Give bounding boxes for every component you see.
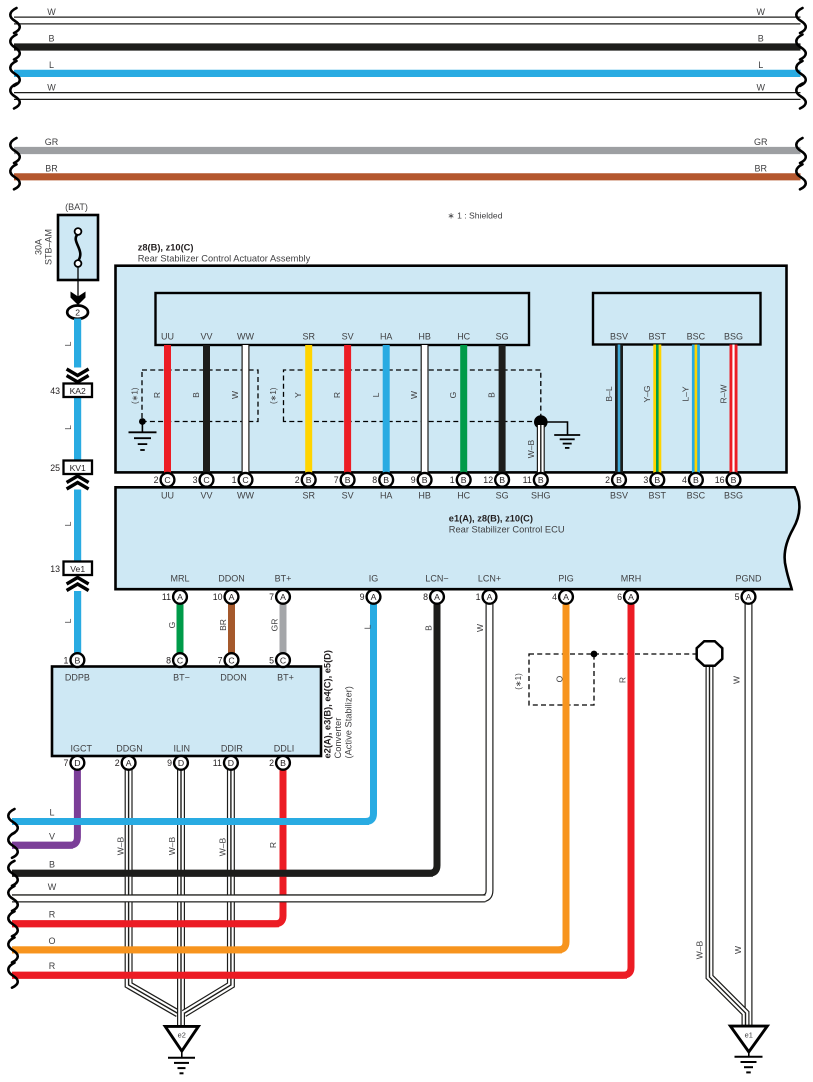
svg-text:B: B <box>345 475 351 485</box>
svg-text:DDON: DDON <box>220 673 247 683</box>
svg-text:z8(B), z10(C): z8(B), z10(C) <box>138 243 194 253</box>
svg-text:Converter: Converter <box>333 718 343 759</box>
svg-text:W: W <box>48 882 57 892</box>
svg-text:A: A <box>628 592 634 602</box>
svg-text:A: A <box>177 592 183 602</box>
fuse box 30A STB-AM <box>58 215 98 280</box>
svg-text:B: B <box>654 475 660 485</box>
svg-text:O: O <box>48 936 55 946</box>
svg-text:A: A <box>126 758 132 768</box>
wire DDLI red R to bus <box>12 769 283 923</box>
ECU pin 1(A) <box>476 590 497 604</box>
svg-text:30A: 30A <box>34 239 44 255</box>
svg-text:9: 9 <box>167 758 172 768</box>
pin 12(B) SG <box>483 473 509 487</box>
wire SR yellow Y <box>305 345 312 473</box>
svg-text:Ve1: Ve1 <box>70 564 85 574</box>
svg-text:7: 7 <box>63 758 68 768</box>
actuator inner block 1 <box>156 293 530 345</box>
svg-text:L: L <box>758 60 763 70</box>
wire UU red R <box>164 345 171 473</box>
wire DDGN white-black W-B <box>129 769 178 1013</box>
svg-text:C: C <box>242 475 248 485</box>
svg-text:11: 11 <box>213 758 222 768</box>
svg-text:2: 2 <box>295 475 300 485</box>
bus wire R red bottom 2 <box>12 972 627 979</box>
break squiggle bottom bus <box>8 886 17 911</box>
svg-text:B: B <box>616 475 622 485</box>
pin 16(B) BSG <box>715 473 741 487</box>
svg-text:9: 9 <box>360 592 365 602</box>
svg-text:BSG: BSG <box>724 332 743 342</box>
svg-text:A: A <box>746 592 752 602</box>
svg-text:B: B <box>461 475 467 485</box>
svg-text:2: 2 <box>269 758 274 768</box>
pin 8(B) HA <box>372 473 393 487</box>
converter top pin 8(C) BT- <box>166 653 187 667</box>
wire VV black B <box>203 345 210 473</box>
svg-text:10: 10 <box>213 592 223 602</box>
svg-text:SV: SV <box>342 332 354 342</box>
svg-text:4: 4 <box>682 475 687 485</box>
break squiggle bottom bus <box>8 963 17 988</box>
break squiggle top bus right <box>796 35 805 60</box>
svg-text:e1(A), z8(B), z10(C): e1(A), z8(B), z10(C) <box>449 514 533 524</box>
svg-text:W: W <box>230 391 240 399</box>
svg-text:UU: UU <box>161 332 174 342</box>
shield dashed box 1 around UU/VV/WW wires <box>142 370 258 422</box>
svg-text:BSV: BSV <box>610 490 628 500</box>
pin 2(B) SR <box>295 473 316 487</box>
svg-text:1: 1 <box>476 592 481 602</box>
svg-text:B–L: B–L <box>604 386 614 401</box>
svg-text:HB: HB <box>418 490 431 500</box>
svg-text:C: C <box>203 475 209 485</box>
svg-text:7: 7 <box>334 475 339 485</box>
wire LCN+ white W to bus <box>12 603 490 898</box>
svg-text:SHG: SHG <box>531 490 551 500</box>
shield drain wire W-B from octagon to ground e1 <box>710 665 746 1026</box>
pin 2(C) UU <box>154 473 175 487</box>
arrow into connector 2 <box>71 292 86 306</box>
converter bottom pin 11(D) DDIR <box>213 756 238 770</box>
svg-text:V: V <box>49 831 55 841</box>
wire L blue segment 4 <box>74 591 81 653</box>
svg-text:BT+: BT+ <box>277 673 294 683</box>
wire MRL to BT- green G <box>177 603 184 653</box>
svg-text:KV1: KV1 <box>70 463 86 473</box>
svg-text:DDON: DDON <box>218 574 245 584</box>
svg-text:IG: IG <box>369 574 379 584</box>
svg-text:C: C <box>280 655 286 665</box>
pin 9(B) HB <box>411 473 432 487</box>
svg-text:PIG: PIG <box>558 574 574 584</box>
ECU pin 6(A) <box>617 590 638 604</box>
svg-text:SR: SR <box>302 332 315 342</box>
svg-text:B: B <box>191 392 201 398</box>
svg-text:W–B: W–B <box>167 836 177 855</box>
ground triangle e1 <box>730 1026 767 1052</box>
wire HB white W <box>421 345 429 473</box>
svg-text:BR: BR <box>45 163 58 173</box>
ground triangle e2 <box>165 1026 198 1051</box>
break squiggle bottom bus <box>8 911 17 936</box>
svg-text:A: A <box>487 592 493 602</box>
svg-text:R: R <box>618 677 628 683</box>
svg-text:3: 3 <box>193 475 198 485</box>
svg-text:W: W <box>733 946 743 954</box>
svg-text:L: L <box>63 425 73 430</box>
break squiggle bottom bus <box>8 937 17 962</box>
ECU pin 9(A) <box>360 590 381 604</box>
wire BT+ gray GR <box>280 603 287 653</box>
pin 1(C) WW <box>232 473 253 487</box>
svg-text:2: 2 <box>75 307 80 317</box>
break squiggle bottom bus <box>8 861 17 886</box>
svg-text:HA: HA <box>380 332 393 342</box>
fuse STB-AM element <box>76 234 81 261</box>
svg-text:KA2: KA2 <box>70 386 86 396</box>
svg-text:DDPB: DDPB <box>65 673 90 683</box>
svg-text:B: B <box>499 475 505 485</box>
svg-text:4: 4 <box>552 592 557 602</box>
wire PIG orange O to bus <box>12 603 566 950</box>
svg-text:5: 5 <box>735 592 740 602</box>
svg-text:e2: e2 <box>178 1031 186 1040</box>
bus wire L blue bottom <box>12 818 369 825</box>
junction dot on dashed box 3 <box>591 651 598 658</box>
bus wire B black bottom <box>12 870 433 877</box>
svg-text:R–W: R–W <box>719 385 729 404</box>
svg-text:LCN+: LCN+ <box>478 574 501 584</box>
svg-text:SG: SG <box>496 490 509 500</box>
svg-text:DDLI: DDLI <box>274 744 295 754</box>
svg-text:MRH: MRH <box>621 574 642 584</box>
wire L blue segment 2 <box>74 396 81 461</box>
svg-text:B: B <box>424 625 434 631</box>
wire ILIN white-black W-B <box>177 769 185 1013</box>
svg-text:B: B <box>422 475 428 485</box>
svg-text:B: B <box>75 655 81 665</box>
svg-text:(Active Stabilizer): (Active Stabilizer) <box>344 686 354 758</box>
ECU pin 11(A) <box>162 590 187 604</box>
svg-text:BT+: BT+ <box>275 574 292 584</box>
converter box e2/e3/e4/e5 <box>52 667 321 757</box>
svg-text:Y: Y <box>293 392 303 398</box>
svg-text:8: 8 <box>372 475 377 485</box>
break squiggle top bus left <box>10 8 19 33</box>
break squiggle top bus right <box>796 8 805 33</box>
svg-text:HC: HC <box>457 490 470 500</box>
svg-text:WW: WW <box>237 332 254 342</box>
ECU pin 7(A) <box>269 590 290 604</box>
svg-text:B: B <box>280 758 286 768</box>
svg-text:DDGN: DDGN <box>116 744 143 754</box>
svg-text:ILIN: ILIN <box>173 744 190 754</box>
pin 4(B) BSC <box>682 473 703 487</box>
break squiggle top bus left <box>10 61 19 86</box>
wire HC green G <box>460 345 467 473</box>
svg-text:DDIR: DDIR <box>221 744 243 754</box>
svg-text:13: 13 <box>50 564 60 574</box>
chevron up below KV1 <box>67 476 89 489</box>
svg-text:WW: WW <box>237 490 254 500</box>
converter top pin 1(B) DDPB <box>63 653 84 667</box>
shield ground of box 1 <box>141 422 143 433</box>
svg-text:6: 6 <box>617 592 622 602</box>
svg-text:D: D <box>228 758 234 768</box>
svg-text:B: B <box>48 34 54 44</box>
svg-text:R: R <box>332 392 342 398</box>
svg-text:11: 11 <box>162 592 171 602</box>
svg-text:B: B <box>306 475 312 485</box>
svg-text:R: R <box>152 392 162 398</box>
svg-text:STB–AM: STB–AM <box>44 229 54 265</box>
svg-text:L: L <box>63 618 73 623</box>
junction dot SHG <box>534 415 548 429</box>
svg-text:W: W <box>732 676 742 684</box>
svg-text:PGND: PGND <box>735 574 762 584</box>
svg-text:1: 1 <box>232 475 237 485</box>
svg-text:43: 43 <box>50 386 60 396</box>
connector oval 2 <box>67 306 88 319</box>
bus wire W white bottom <box>12 894 486 902</box>
bus wire B black top <box>14 43 801 50</box>
junction box Ve1 <box>64 562 93 576</box>
svg-text:∗ 1 : Shielded: ∗ 1 : Shielded <box>448 211 503 221</box>
junction dot box1 <box>139 418 146 425</box>
svg-text:R: R <box>49 961 56 971</box>
svg-text:D: D <box>178 758 184 768</box>
pin 3(C) VV <box>193 473 214 487</box>
svg-text:UU: UU <box>161 490 174 500</box>
wire WW white W <box>242 345 250 473</box>
svg-text:W–B: W–B <box>116 836 126 855</box>
svg-text:BR: BR <box>218 619 228 631</box>
svg-text:L: L <box>49 808 54 818</box>
svg-text:R: R <box>268 842 278 848</box>
svg-text:SG: SG <box>496 332 509 342</box>
ground stack e1 <box>735 1057 763 1073</box>
ECU pin 5(A) <box>735 590 756 604</box>
converter bottom pin 7(D) IGCT <box>63 756 84 770</box>
svg-text:9: 9 <box>411 475 416 485</box>
SHG shield ground <box>541 422 568 435</box>
svg-text:BSG: BSG <box>724 490 743 500</box>
svg-text:16: 16 <box>715 475 725 485</box>
break squiggle top bus left <box>10 84 19 109</box>
break squiggle top bus right <box>796 84 805 109</box>
svg-text:R: R <box>49 909 56 919</box>
converter top pin 7(C) DDON <box>218 653 239 667</box>
svg-text:B: B <box>487 392 497 398</box>
svg-text:W: W <box>757 7 766 17</box>
svg-text:BST: BST <box>649 490 667 500</box>
svg-text:W: W <box>47 83 56 93</box>
svg-text:BST: BST <box>649 332 667 342</box>
break squiggle top bus right <box>796 164 805 189</box>
svg-text:W–B: W–B <box>218 837 228 856</box>
svg-text:HA: HA <box>380 490 393 500</box>
shield octagon connector <box>697 641 723 666</box>
wire LCN- black B to bus <box>12 603 437 873</box>
bus wire O orange bottom <box>12 946 562 953</box>
ECU pin 4(A) <box>552 590 573 604</box>
break squiggle top bus right <box>796 61 805 86</box>
svg-text:1: 1 <box>450 475 455 485</box>
svg-text:C: C <box>177 655 183 665</box>
svg-text:(BAT): (BAT) <box>65 202 88 212</box>
svg-text:VV: VV <box>200 490 212 500</box>
svg-text:W: W <box>475 624 485 632</box>
svg-text:GR: GR <box>45 137 59 147</box>
svg-text:5: 5 <box>269 655 274 665</box>
svg-text:GR: GR <box>270 619 280 632</box>
wire BSC blue-yellow L-Y <box>692 345 700 474</box>
svg-text:A: A <box>434 592 440 602</box>
svg-text:L–Y: L–Y <box>681 386 691 401</box>
break squiggle top bus left <box>10 164 19 189</box>
wire BSG red-white R-W <box>730 345 738 474</box>
bus wire R red bottom 1 <box>12 920 279 927</box>
shield dashed box 3 around PIG wire <box>529 654 594 705</box>
svg-text:B: B <box>731 475 737 485</box>
svg-text:B: B <box>538 475 544 485</box>
wire L blue fuse chain segment 1 <box>74 319 81 368</box>
wire BSV black-blue B-L <box>615 345 623 474</box>
bus wire BR brown top <box>14 173 801 180</box>
svg-text:Y–G: Y–G <box>642 385 652 402</box>
svg-text:W–B: W–B <box>526 439 536 458</box>
svg-text:B: B <box>693 475 699 485</box>
svg-text:HB: HB <box>418 332 431 342</box>
ECU pin 8(A) <box>423 590 444 604</box>
wire SG black B <box>499 345 506 473</box>
bus wire W white top 2 <box>14 92 801 100</box>
svg-text:GR: GR <box>754 137 768 147</box>
bus wire GR gray top <box>14 147 801 154</box>
svg-text:W–B: W–B <box>695 940 705 959</box>
chevron down into KA2 <box>67 369 89 382</box>
svg-text:B: B <box>758 34 764 44</box>
svg-text:(∗1): (∗1) <box>131 387 140 404</box>
svg-text:11: 11 <box>523 475 532 485</box>
break squiggle bottom bus <box>8 809 17 834</box>
svg-text:SR: SR <box>302 490 315 500</box>
wire BST yellow-green Y-G <box>653 345 661 474</box>
break squiggle bottom bus <box>8 833 17 858</box>
svg-text:G: G <box>167 622 177 629</box>
rear stabilizer control ECU box e1/z8/z10 <box>116 487 800 589</box>
junction box KA2 <box>64 384 93 398</box>
wire L blue segment 3 <box>74 490 81 563</box>
svg-text:SV: SV <box>342 490 354 500</box>
merged W-B wire to ground e2 <box>177 1013 185 1027</box>
chevron up below Ve1 <box>67 578 89 591</box>
svg-text:7: 7 <box>218 655 223 665</box>
wire SHG white-black W-B <box>537 425 545 473</box>
pin 2(B) BSV <box>605 473 626 487</box>
wire DDIR white-black W-B <box>184 769 231 1013</box>
svg-text:L: L <box>63 521 73 526</box>
svg-text:7: 7 <box>269 592 274 602</box>
svg-text:C: C <box>228 655 234 665</box>
svg-text:W: W <box>47 7 56 17</box>
svg-text:MRL: MRL <box>170 574 189 584</box>
svg-text:BSC: BSC <box>687 490 706 500</box>
pin 7(B) SV <box>334 473 355 487</box>
wire SV red R <box>344 345 351 473</box>
svg-text:IGCT: IGCT <box>71 744 93 754</box>
break squiggle top bus left <box>10 35 19 60</box>
svg-text:e2(A), e3(B), e4(C), e5(D): e2(A), e3(B), e4(C), e5(D) <box>323 650 333 759</box>
svg-text:A: A <box>371 592 377 602</box>
svg-text:LCN−: LCN− <box>425 574 448 584</box>
rear stabilizer control actuator assembly box z8/z10 <box>116 266 787 473</box>
bus wire L blue top <box>14 70 801 77</box>
break squiggle top bus right <box>796 138 805 163</box>
svg-text:3: 3 <box>643 475 648 485</box>
svg-text:BSC: BSC <box>687 332 706 342</box>
svg-text:L: L <box>371 392 381 397</box>
wire DDON brown BR <box>228 603 235 653</box>
wire IGCT violet V to bus <box>12 769 77 845</box>
break squiggle top bus left <box>10 138 19 163</box>
pin 11(B) SHG <box>523 473 548 487</box>
svg-text:O: O <box>555 675 565 682</box>
svg-text:8: 8 <box>423 592 428 602</box>
pin 3(B) BST <box>643 473 664 487</box>
svg-text:2: 2 <box>605 475 610 485</box>
converter top pin 5(C) BT+ <box>269 653 290 667</box>
svg-text:W: W <box>757 83 766 93</box>
svg-text:1: 1 <box>63 655 68 665</box>
svg-text:A: A <box>229 592 235 602</box>
wire MRH red R to bus <box>12 603 631 975</box>
svg-text:e1: e1 <box>745 1031 753 1040</box>
svg-text:B: B <box>383 475 389 485</box>
svg-text:25: 25 <box>50 463 60 473</box>
svg-text:A: A <box>563 592 569 602</box>
svg-text:L: L <box>362 624 372 629</box>
wire PGND white W to ground e1 <box>745 603 753 1026</box>
svg-text:12: 12 <box>483 475 493 485</box>
junction box KV1 <box>64 461 93 475</box>
svg-text:(∗1): (∗1) <box>269 387 278 404</box>
svg-text:BSV: BSV <box>610 332 628 342</box>
actuator inner block 2 <box>593 293 761 345</box>
svg-text:BR: BR <box>755 163 768 173</box>
bus wire V violet bottom <box>12 842 73 849</box>
wire HA blue L <box>383 345 390 473</box>
dashed shield drain line to octagon <box>594 653 696 655</box>
svg-text:HC: HC <box>457 332 470 342</box>
ECU pin 10(A) <box>213 590 239 604</box>
svg-text:D: D <box>74 758 80 768</box>
bus wire W white top 1 <box>14 17 801 25</box>
pin 1(B) HC <box>450 473 471 487</box>
svg-text:Rear Stabilizer Control ECU: Rear Stabilizer Control ECU <box>449 525 565 535</box>
svg-text:C: C <box>164 475 170 485</box>
svg-text:8: 8 <box>166 655 171 665</box>
wire IG blue L to bus <box>12 603 374 821</box>
svg-text:(∗1): (∗1) <box>514 673 523 690</box>
converter bottom pin 2(B) DDLI <box>269 756 290 770</box>
svg-text:Rear Stabilizer Control Actuat: Rear Stabilizer Control Actuator Assembl… <box>138 253 311 263</box>
svg-text:L: L <box>49 60 54 70</box>
svg-text:2: 2 <box>115 758 120 768</box>
svg-text:VV: VV <box>200 332 212 342</box>
